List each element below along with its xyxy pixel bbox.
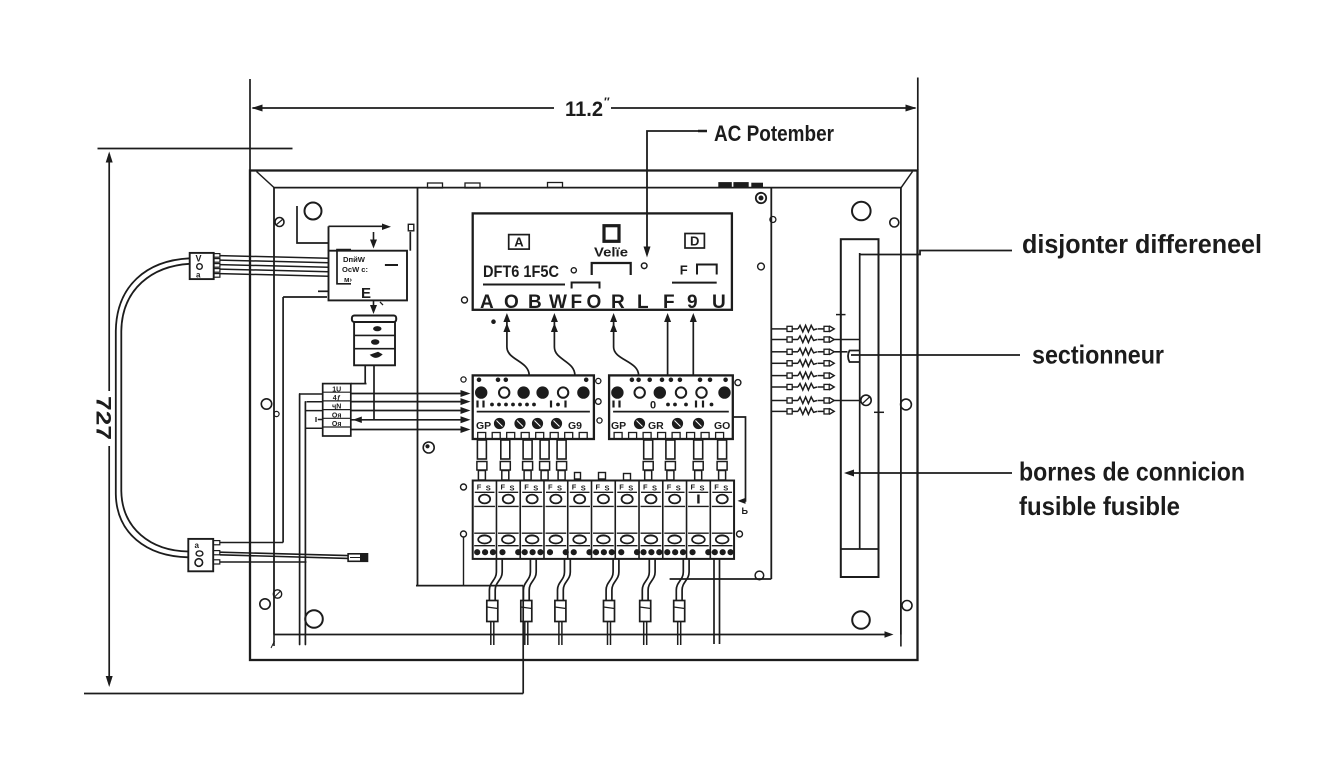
small o right of module [735,380,741,386]
fuse exit wires [489,559,496,601]
svg-text:S: S [509,484,514,493]
door clip tab 1 [428,183,443,188]
ferrule at x645 [640,601,651,622]
ferrule at x609 [604,601,615,622]
bracket over R [592,263,631,275]
leader AC Potember [647,131,704,249]
borne strip inner vertical [859,253,861,549]
inner bracket in box E [337,250,351,284]
fusible link row 4 [772,362,788,364]
inner bottom edge with arrow [274,634,888,636]
ferrule at x679 [674,601,685,622]
block left stubs [299,393,323,395]
svg-text:F: F [596,483,601,492]
svg-text:1U: 1U [332,386,341,393]
screw hole top-left [305,203,322,220]
ferrule at x560 [555,601,566,622]
svg-text:GO: GO [714,420,730,432]
svg-text:F: F [500,483,505,492]
svg-text:4ƒ: 4ƒ [333,395,341,402]
screw left lower [260,599,270,609]
svg-text:O: O [504,292,519,313]
svg-text:м›: м› [344,275,353,284]
screw on plate mid [423,442,434,453]
svg-text:″: ″ [604,95,610,109]
svg-text:disjonter differeneel: disjonter differeneel [1022,231,1262,259]
screw left lower small [273,590,281,598]
wire J2 row1 [220,542,283,544]
label box A [509,235,530,250]
svg-text:F: F [571,292,583,313]
component box E outline [329,251,408,301]
ferrule at x526 [521,601,532,622]
mounting plate left edge [417,189,419,586]
wire relay L to strip W [554,327,575,375]
cable arc outer [116,258,190,557]
svg-text:а: а [196,271,201,280]
L wire into box E left [297,206,329,243]
dimension extension line right [917,78,919,171]
relay module left K1 [473,375,594,439]
svg-text:727: 727 [92,396,115,440]
screw plate bottom-right [755,571,764,580]
screw small top-right [890,218,899,227]
filled tab 3 [752,183,763,187]
hole bottom-left large [305,610,323,628]
wire relay R to F11 [733,417,746,501]
dimension extension line left [249,79,251,170]
stub square above F6 [599,473,606,480]
connector J1 body [190,253,214,279]
mounting plate bottom left [416,585,523,587]
box E left edge extension [328,226,330,250]
borne strip tall rectangle [841,239,879,577]
svg-text:E: E [361,285,371,302]
svg-text:F: F [643,483,648,492]
fuse bank small o marks [461,484,467,490]
svg-text:S: S [533,484,538,493]
staple over F O [572,283,600,289]
screw left mid [261,399,271,409]
svg-text:S: S [581,484,586,493]
cylinder dots [373,326,381,331]
row2 extension [834,339,860,341]
small circle left of strip [462,297,468,303]
hole top-right large [852,202,871,221]
svg-text:F: F [524,483,529,492]
svg-text:R: R [611,292,625,313]
door clip tab 2 [465,183,480,188]
svg-text:F: F [548,483,553,492]
svg-text:GR: GR [648,420,664,432]
row3 extension [834,351,847,353]
screw in borne strip [861,395,871,405]
wire relay L to strip A [507,327,529,375]
svg-text:F: F [691,483,696,492]
wire box E to cylinder [373,300,375,305]
small o right of rows [758,263,765,270]
small o on plate edge [770,217,776,223]
connector J1 pins [214,254,220,258]
mounting plate bottom right [670,578,772,580]
small terminal block left [323,384,351,436]
fusible link row 6 [772,386,788,388]
svg-text:GP: GP [476,420,491,432]
door clip tab 3 [548,183,563,188]
arrow into strip 9 [692,320,694,375]
arrow into strip A [506,320,508,327]
svg-text:S: S [605,484,610,493]
screw right margin upper [901,399,912,410]
arrow into strip W [553,320,555,327]
svg-text:а: а [195,541,200,550]
hole bottom-right large [852,611,870,629]
leader sectionneur [851,354,1020,356]
top dimension line 11.2in [253,107,555,109]
arrow into box E [373,232,375,240]
svg-text:sectionneur: sectionneur [1032,340,1164,370]
svg-text:11.2: 11.2 [565,98,603,121]
row7 extension to screw [834,400,861,402]
fusible link row 5 [772,375,788,377]
terminal lug [348,554,367,562]
underline DFT6 [483,284,565,286]
svg-text:O: O [587,292,602,313]
fuse bank outline [473,481,734,559]
svg-text:DпйW: DпйW [343,255,366,264]
wire top horizontal y297 [283,296,327,298]
arrow into strip R [613,320,615,327]
svg-text:S: S [676,484,681,493]
svg-text:G9: G9 [568,420,582,432]
screw small top-left [275,218,284,227]
svg-text:Oя: Oя [332,412,342,419]
svg-text:Velїe: Velїe [594,246,628,260]
tick on strip right [874,411,884,413]
svg-text:fusible fusible: fusible fusible [1019,491,1180,521]
wire J2 row3 [220,561,307,563]
small circle o in strip [571,268,576,273]
dimension text 727 [92,396,115,440]
svg-text:GP: GP [611,420,626,432]
stub left of box E [318,290,329,292]
terminal strip box [473,213,732,309]
svg-text:S: S [723,484,728,493]
fusible link row 2 [772,339,788,341]
fusible link row 8 [772,410,788,412]
svg-text:A: A [514,235,524,250]
fusible link row 7 [772,400,788,402]
svg-text:Ь: Ь [742,506,749,516]
box E top wire with arrow [329,225,387,227]
fusible link row 3 [772,351,788,353]
fuse stems [477,440,486,459]
wire J2 row2 to lug [220,552,348,555]
svg-text:F: F [619,483,624,492]
svg-text:F: F [667,483,672,492]
corner bevel bottom-left [271,641,275,648]
cylinder lid [352,316,396,323]
overline over F 9 U [672,282,717,284]
ferrule at x492 [487,601,498,622]
last pair wires F11 [713,559,715,644]
svg-text:F: F [477,483,482,492]
screw with dot top-center [756,193,766,203]
corner bevel top-left [257,172,275,189]
panel enclosure outer [250,171,918,661]
box E dash [385,264,398,266]
svg-text:L: L [637,292,649,313]
filled tab 1 [719,183,732,188]
cable arc inner [121,264,189,552]
riser wire x283 [282,297,284,543]
cylinder stem left [364,365,366,383]
svg-text:0: 0 [650,400,656,412]
cylinder body [354,322,395,365]
harness wires J1 to box E [220,256,329,259]
svg-text:AC Potember: AC Potember [714,121,834,146]
svg-text:F: F [572,483,577,492]
svg-text:A: A [480,292,494,313]
corner bevel top-right [901,172,913,188]
leader bornes [847,472,1012,474]
bottom dimension line [84,693,523,695]
svg-text:F: F [663,292,675,313]
svg-text:DFT6 1F5C: DFT6 1F5C [483,263,559,281]
svg-text:S: S [486,484,491,493]
riser wire x299 [299,394,301,645]
svg-text:9: 9 [687,292,698,313]
svg-text:ҷN: ҷN [332,404,341,411]
stub square above F7 [624,474,631,481]
svg-text:S: S [652,484,657,493]
mounting plate right edge [770,189,772,580]
cylinder stem right to row4 [373,365,375,420]
wires block to relay with arrows [351,393,466,395]
bold square indicator [604,226,619,242]
svg-text:F: F [714,483,719,492]
borne strip inner bottom [841,548,879,550]
dot near arrow [492,320,496,324]
leader disjoncteur [861,251,1013,255]
small o between modules [596,378,601,383]
panel enclosure inner [274,188,901,635]
svg-text:U: U [712,292,726,313]
svg-text:OсW с:: OсW с: [342,265,368,274]
svg-text:S: S [557,484,562,493]
svg-text:S: S [700,484,705,493]
screw right margin lower [902,601,912,611]
wire from plate bottom to dimension line [522,586,524,694]
relay module right K2 [609,375,733,439]
label box D [685,234,704,249]
svg-text:bornes de connicion: bornes de connicion [1019,457,1245,487]
screw small o left [274,411,279,416]
arrow into strip F [667,320,669,375]
svg-text:F: F [680,263,688,278]
wire relay R to strip R [614,327,639,375]
connector J2 body [188,539,213,571]
svg-text:V: V [196,254,202,264]
filled tab 2 [734,183,748,188]
svg-text:W: W [549,292,567,313]
wire left of bank [463,538,465,586]
small o left of module [461,377,466,382]
riser wire x306 [304,402,306,645]
svg-text:B: B [528,292,542,313]
left dimension line 727 [108,154,110,391]
svg-text:D: D [690,234,699,249]
svg-text:S: S [628,484,633,493]
small circle target of arrow [641,263,647,269]
plate edge connector stub [409,232,411,251]
fusible link row 1 [772,328,788,330]
tick on strip left [836,314,846,316]
left dimension extension line top [98,148,293,150]
connector J2 pins [213,541,220,545]
svg-text:Oя: Oя [332,421,342,428]
